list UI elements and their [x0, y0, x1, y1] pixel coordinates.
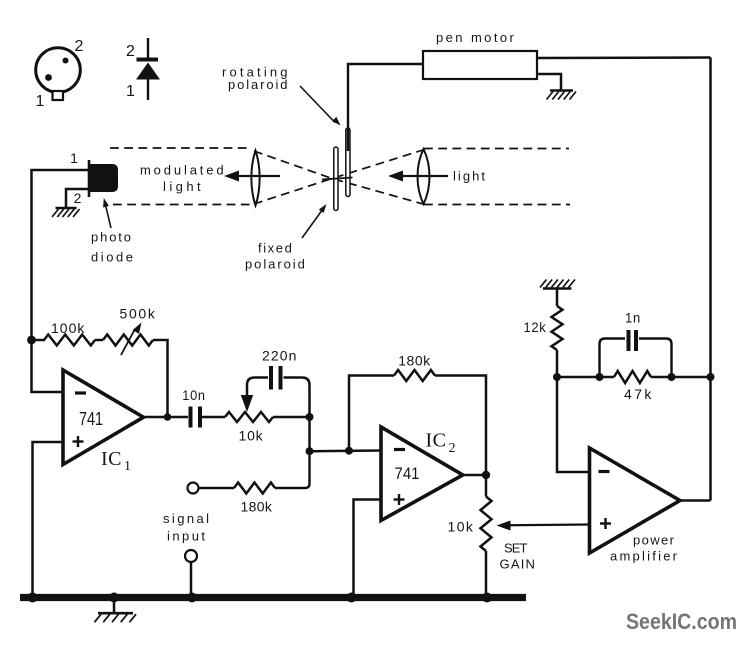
svg-text:SET: SET	[504, 541, 529, 556]
svg-text:741: 741	[79, 409, 103, 429]
svg-text:diode: diode	[91, 250, 135, 265]
svg-text:light: light	[453, 169, 487, 184]
svg-text:10n: 10n	[182, 387, 206, 403]
svg-text:1: 1	[126, 83, 135, 100]
svg-text:polaroid: polaroid	[245, 257, 307, 272]
svg-text:2: 2	[449, 441, 456, 456]
svg-text:modulated: modulated	[140, 163, 226, 178]
svg-text:polaroid: polaroid	[228, 77, 290, 92]
svg-text:power: power	[633, 533, 676, 548]
svg-text:1: 1	[36, 93, 45, 110]
svg-text:IC: IC	[101, 448, 122, 470]
svg-text:2: 2	[126, 43, 135, 60]
svg-text:2: 2	[74, 190, 82, 206]
svg-text:GAIN: GAIN	[500, 557, 537, 572]
svg-text:input: input	[167, 529, 207, 544]
svg-text:light: light	[163, 179, 203, 194]
svg-text:SeekIC.com: SeekIC.com	[626, 609, 737, 634]
svg-text:10k: 10k	[448, 519, 475, 535]
svg-text:2: 2	[75, 38, 84, 55]
svg-text:500k: 500k	[120, 306, 157, 322]
svg-text:photo: photo	[91, 230, 133, 245]
svg-text:1: 1	[124, 459, 131, 474]
svg-text:signal: signal	[163, 511, 211, 526]
svg-text:1: 1	[70, 150, 78, 166]
svg-text:180k: 180k	[241, 499, 274, 515]
svg-text:741: 741	[395, 464, 420, 483]
svg-text:fixed: fixed	[258, 241, 294, 256]
svg-text:180k: 180k	[398, 353, 432, 369]
svg-text:47k: 47k	[624, 386, 653, 402]
svg-text:IC: IC	[426, 430, 447, 452]
svg-text:10k: 10k	[239, 428, 264, 444]
svg-text:pen motor: pen motor	[436, 30, 516, 45]
svg-text:12k: 12k	[524, 319, 547, 335]
svg-text:amplifier: amplifier	[610, 549, 679, 564]
svg-text:220n: 220n	[262, 348, 298, 364]
svg-text:1n: 1n	[625, 310, 641, 326]
svg-text:100k: 100k	[51, 320, 86, 336]
